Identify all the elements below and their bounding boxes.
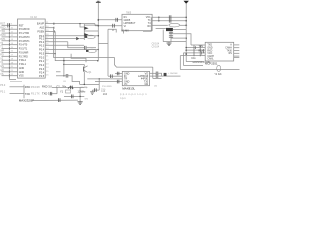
wire xt vertical a (56, 87, 58, 93)
U1 left pin GND wire and labels (0, 65, 24, 70)
node C junction 2 (63, 64, 65, 66)
capacitor column C21 (203, 49, 205, 53)
wire row 33.7 (173, 34, 191, 45)
wire VCC to vertical D (98, 42, 108, 44)
label net CANH (191, 57, 196, 60)
power VCC flag 2 (184, 1, 189, 62)
wire P0.3 (45, 44, 84, 46)
label mid dark 1 (42, 85, 52, 89)
IC U1 AT89C51 microcontroller body (18, 19, 46, 78)
svg-text:P3.4/T0: P3.4/T0 (19, 44, 28, 47)
svg-text:P0.3: P0.3 (39, 44, 45, 47)
wire cell2 out (84, 30, 98, 32)
node j3 (185, 24, 187, 26)
diode D4 mark (86, 50, 88, 52)
svg-text:INT1: INT1 (0, 38, 6, 41)
capacitor C12 (156, 74, 158, 78)
svg-text:P2.2: P2.2 (39, 64, 45, 67)
transistor Q2 arrow (84, 27, 88, 30)
label above U3 (126, 13, 132, 15)
wire vertical D (107, 29, 109, 76)
label right of F 2 (101, 89, 106, 91)
wire u5 row4 (183, 52, 205, 54)
wire PSEN to bus B (45, 31, 55, 33)
U5 left pin names (207, 45, 214, 61)
svg-text:PSEN: PSEN (37, 31, 44, 34)
wire jog to 81.5 (68, 76, 80, 85)
U1 right pin EA/VP labels (37, 22, 49, 26)
U4 left pin names (124, 72, 130, 86)
wire cell3 link (68, 42, 84, 48)
svg-text:Q1: Q1 (88, 71, 92, 74)
wire xt row1a (52, 86, 57, 88)
label gnd3 (85, 99, 89, 101)
svg-text:Y2 32k: Y2 32k (214, 74, 222, 76)
capacitor C24 (71, 95, 73, 99)
wire to transistor base (64, 63, 84, 65)
U3 right pin names (146, 16, 151, 28)
wire bus A vertical (54, 28, 115, 58)
node C junction 1 (63, 60, 65, 62)
wire cap row2 (64, 95, 84, 97)
wire L1 out (180, 24, 186, 26)
diode D1 (76, 37, 84, 40)
crystal Y1 plates (70, 86, 72, 90)
wire cathode column (83, 24, 85, 40)
U5 right pin names (225, 44, 232, 55)
svg-text:EA/VP: EA/VP (37, 23, 45, 26)
wire row 84.4 (80, 83, 100, 85)
svg-text:25: 25 (46, 71, 49, 73)
svg-text:P2.0: P2.0 (39, 56, 45, 59)
wire cap row (31, 99, 78, 101)
wire bus B vertical (55, 32, 98, 61)
label mid faint 1 (31, 86, 40, 89)
wire row 61.6 (186, 61, 204, 63)
svg-text:12MHz: 12MHz (78, 90, 87, 93)
wire vertical node C (63, 58, 65, 76)
svg-text:Y1: Y1 (60, 90, 64, 93)
svg-text:INT0: INT0 (0, 34, 6, 37)
U1 right pin P0.2 labels (39, 40, 49, 44)
svg-text:ALE: ALE (39, 27, 44, 30)
svg-text:P3.0 RX: P3.0 RX (31, 86, 40, 89)
label U3 designator (121, 30, 129, 33)
U5 right pin stubs (234, 45, 240, 56)
svg-text:C1 C2: C1 C2 (30, 17, 37, 19)
wire cell3 out (86, 47, 96, 49)
label hook (112, 30, 115, 32)
label right of F (102, 86, 112, 88)
svg-text:t4n: t4n (154, 85, 158, 88)
svg-text:MAX813L: MAX813L (122, 86, 135, 90)
label C6 (63, 81, 67, 83)
label conn row1 left (0, 84, 6, 87)
label Q1 (88, 71, 92, 74)
svg-text:WR: WR (0, 50, 4, 53)
capacitor C13 (116, 18, 118, 22)
IC U4 body (122, 71, 149, 85)
node bus B row junction (54, 53, 56, 55)
wire ALE to bus (45, 27, 53, 29)
wire U4 out2 (150, 75, 157, 77)
svg-text:P3.3/INT1: P3.3/INT1 (19, 40, 30, 43)
capacitor C5 (66, 74, 68, 78)
wire row 41.6 (163, 41, 186, 43)
note text row 2 (120, 97, 126, 100)
wire xt vertical b (79, 87, 81, 101)
label U5 designator (205, 62, 218, 66)
U1 right pin P0.5 labels (39, 52, 49, 56)
svg-text:P3.1/TXD: P3.1/TXD (19, 32, 30, 35)
wire U4 out1b (158, 73, 162, 76)
svg-text:RS: RS (229, 53, 233, 55)
svg-text:n p-n: n p-n (120, 97, 126, 100)
node j2 (158, 20, 160, 22)
node junction on EA wire (79, 23, 81, 25)
svg-text:P2.5: P2.5 (39, 75, 45, 78)
ground GND1 (90, 90, 94, 94)
wire row 65.4 (183, 64, 203, 66)
label xt top2 (62, 86, 67, 89)
svg-text:TXD: TXD (0, 30, 5, 33)
label Y1 freq (78, 90, 87, 93)
wire U4 out2b (158, 75, 164, 77)
svg-text:P3.1 TX: P3.1 TX (31, 93, 40, 96)
wire gnd row (92, 89, 99, 91)
ground GND3 (78, 102, 83, 105)
U1 right pin ALE labels (39, 26, 49, 30)
capacitor C9 (117, 80, 119, 84)
svg-text:C3 30p: C3 30p (81, 87, 89, 89)
wire vertical I (182, 53, 184, 66)
wire xtal row (57, 86, 84, 88)
svg-text:P3.1: P3.1 (0, 91, 6, 94)
wire vertical D hook (108, 29, 116, 32)
wire xt row2a (50, 93, 57, 95)
svg-text:RXD 3.0: RXD 3.0 (42, 85, 52, 89)
label Y1 (60, 90, 64, 93)
node end of bus B (97, 60, 99, 62)
label conn row2 right (25, 92, 30, 96)
LED DS1 body (87, 35, 96, 38)
svg-text:GD: GD (0, 69, 4, 72)
node Q1 emitter junction (84, 84, 86, 86)
note text row (120, 93, 147, 96)
node v2 a (185, 16, 187, 18)
wire row 38.1 (171, 37, 186, 39)
U1 right pin P2.4 labels lower (39, 71, 49, 75)
svg-text:RXD: RXD (25, 85, 31, 89)
crystal Y1 body (66, 90, 71, 93)
transistor Q4 body (164, 73, 167, 76)
label net CANL (193, 61, 210, 64)
svg-text:VI: VI (124, 25, 127, 28)
wire corner path K (71, 54, 86, 63)
svg-text:P3.6/WR: P3.6/WR (19, 51, 29, 54)
svg-text:22: 22 (46, 60, 49, 62)
node j1 (158, 16, 160, 18)
wire conn vertical (23, 85, 25, 99)
wire u5 row1 (191, 44, 205, 46)
wire U3 out4 (156, 28, 166, 30)
wire P0.4 to VCC rail (45, 49, 98, 51)
capacitor C17 (169, 32, 173, 34)
wire u5 row3 (186, 49, 205, 51)
svg-text:P3.2/INT0: P3.2/INT0 (19, 36, 30, 39)
svg-text:J1: J1 (112, 30, 115, 32)
U1 right pin P0.3 labels (39, 44, 49, 48)
wire D2 out (173, 29, 186, 31)
U1 left pin P3.3/INT1 wire and labels (0, 38, 30, 43)
svg-text:RST: RST (19, 24, 24, 27)
U1 left pin P3.7/RD wire and labels (0, 53, 28, 58)
wire P0.5 to bus (45, 53, 55, 55)
U4 right pin names (138, 72, 149, 86)
svg-text:GN: GN (85, 99, 89, 101)
svg-text:t 1N4148: t 1N4148 (169, 72, 179, 75)
svg-text:VS: VS (0, 73, 4, 76)
diode D2 body (166, 28, 173, 31)
label conn bottom (19, 99, 34, 103)
capacitor C14 (113, 24, 115, 28)
label U4 designator (122, 86, 135, 90)
node v2 c (185, 37, 187, 39)
wire vertical H (162, 30, 164, 42)
svg-text:P2.3: P2.3 (39, 68, 45, 71)
label F1 (214, 74, 222, 76)
label xt right (85, 87, 88, 89)
U1 left pin VSS wire and labels (0, 73, 24, 78)
U1 right pin P2.2 labels lower (39, 63, 49, 67)
svg-text:GN: GN (144, 83, 148, 86)
wire j1-j2 link (158, 17, 160, 21)
wire U5 stub extra (234, 56, 240, 58)
node VCC junction a (98, 19, 100, 21)
capacitor column C19 (194, 45, 196, 56)
U1 left pin P3.4/T0 wire and labels (0, 42, 28, 47)
power VCC flag 1 (96, 1, 101, 61)
inductor L1 body (169, 23, 180, 27)
wire EA/VP to VCC rail (45, 24, 95, 26)
wire row 75.8 (56, 75, 66, 77)
svg-text:C8 104: C8 104 (152, 44, 160, 46)
U1 right pin PSEN labels (37, 30, 49, 34)
capacitor C16 (169, 19, 171, 23)
wire bus F drop (152, 67, 154, 78)
wire P0.2 (45, 41, 68, 43)
capacitor C3 on RST line (8, 23, 10, 27)
svg-text:C9 104: C9 104 (152, 47, 160, 49)
wire U3 out2 (152, 20, 186, 22)
U3 left pin names (124, 16, 136, 28)
svg-text:RST: RST (0, 22, 5, 25)
transistor Q1 (84, 64, 88, 84)
wire vertical G (170, 31, 172, 41)
label net2 (198, 50, 203, 53)
wire vertical J (179, 56, 181, 70)
label Q4 (169, 72, 179, 75)
U1 right pin P0.1 labels (39, 37, 49, 41)
svg-text:C6: C6 (63, 81, 67, 83)
U1 left pin P3.5/T1 wire and labels (0, 46, 28, 51)
crystal Y1 arc (68, 87, 73, 89)
diode D3 mark (85, 36, 87, 38)
svg-text:RD: RD (0, 53, 4, 56)
svg-text:TXD: TXD (207, 45, 212, 47)
node VCC junction c (98, 19, 100, 21)
transistor Q3 arrow (84, 33, 88, 36)
node bus ticks (53, 23, 56, 33)
svg-text:P3.0: P3.0 (0, 84, 6, 87)
wire conn row2 (10, 93, 25, 95)
U1 left pin P3.1/TXD wire and labels (0, 30, 29, 35)
svg-text:P0.4: P0.4 (39, 49, 45, 52)
svg-text:CANH: CANH (207, 55, 214, 58)
label conn row1 right (25, 85, 31, 89)
node P0.4 junction (98, 49, 100, 51)
node VCC junction d (98, 25, 100, 27)
U1 left pin RST wire and labels (0, 22, 24, 27)
svg-text:P2.1: P2.1 (39, 60, 45, 63)
wire U3 out1 (152, 16, 186, 18)
U1 left pin P3.6/WR wire and labels (0, 50, 28, 55)
U1 right pin P2.0 labels lower (39, 56, 49, 60)
node r3 (185, 49, 187, 51)
wire P0.1 to diode (45, 38, 76, 40)
svg-text:21: 21 (46, 56, 49, 58)
label C values (152, 44, 160, 49)
U1 right pin P2.3 labels lower (39, 67, 49, 71)
capacitor C6 (95, 88, 97, 92)
svg-text:P3.7/RD: P3.7/RD (19, 55, 28, 58)
svg-text:R1N: R1N (198, 50, 203, 53)
svg-text:CANH: CANH (225, 47, 232, 50)
node r2 (185, 47, 187, 49)
LED DS2 body (88, 49, 97, 52)
capacitor C23 (58, 98, 60, 102)
capacitor C8 (111, 74, 113, 78)
U1 left pin XTAL1 wire and labels (0, 61, 26, 66)
wire GND jog below U1 left (10, 76, 17, 80)
svg-text:P3.0 RXD: P3.0 RXD (102, 86, 112, 88)
svg-text:GN: GN (0, 65, 4, 68)
svg-text:T1N: T1N (198, 45, 203, 48)
capacitor C11 (156, 72, 158, 76)
wire U3 in1 (98, 19, 122, 21)
label xt top3 (81, 87, 89, 89)
svg-text:T430: T430 (227, 50, 233, 52)
node xt (79, 96, 81, 98)
node C junction 3 (63, 75, 65, 77)
node v2 d (185, 53, 187, 55)
svg-text:VCC: VCC (207, 53, 212, 55)
U1 left pin GND wire and labels (0, 69, 24, 74)
wire stub (56, 71, 61, 73)
wire U4 pin2 (108, 75, 122, 77)
U1 left pin XTAL2 wire and labels (0, 57, 26, 62)
svg-text:104: 104 (103, 93, 108, 96)
svg-text:RXD: RXD (207, 50, 212, 52)
wire U4 pin3 (87, 78, 122, 80)
label net1 (198, 45, 203, 48)
wire u5 row2 (186, 47, 205, 49)
svg-text:24: 24 (46, 67, 49, 69)
wire conn row1 (10, 86, 25, 88)
label mid faint 2 (31, 93, 40, 96)
capacitor C15 (169, 15, 171, 19)
wire U4 out1 (150, 72, 157, 74)
U1 left pin P3.0/RXD wire and labels (0, 26, 29, 31)
label above U1 (30, 17, 37, 19)
svg-text:P3.5/T1: P3.5/T1 (19, 48, 28, 51)
svg-text:23: 23 (46, 63, 49, 65)
wire vertical F (98, 79, 100, 90)
wire Q4 out (167, 75, 181, 77)
svg-text:VSS: VSS (19, 75, 24, 78)
wire stub below U1 (10, 80, 22, 82)
svg-text:GND: GND (19, 71, 25, 74)
wire bus F row (153, 77, 162, 79)
svg-text:C11: C11 (191, 57, 196, 60)
IC U5 body (205, 42, 234, 61)
wire U3 right edge drop (143, 17, 151, 31)
label near F (101, 91, 108, 96)
wire u5 row5 (180, 55, 205, 57)
label small bottom (154, 85, 158, 88)
label xt top1 (56, 86, 60, 89)
IC U3 body (122, 14, 152, 30)
capacitor C4 (84, 46, 86, 50)
svg-text:GND: GND (207, 48, 212, 50)
label conn row2 left (0, 91, 6, 94)
wire drop from EA junction (80, 24, 84, 27)
capacitor C7 (117, 72, 119, 76)
svg-text:U3 MX: U3 MX (121, 30, 129, 33)
node F top (98, 78, 100, 80)
svg-text:RXD: RXD (0, 26, 5, 29)
capacitor C18 (169, 36, 173, 38)
capacitor C22 (50, 92, 52, 96)
capacitor column C20 (200, 45, 202, 56)
svg-text:P0.5: P0.5 (39, 53, 45, 56)
svg-text:GND: GND (19, 67, 25, 70)
svg-text:7805: 7805 (126, 13, 132, 15)
wire U3 in2 (95, 25, 122, 27)
wire U3 stub below (123, 31, 125, 34)
wire P0.0 to VCC rail (45, 35, 98, 37)
wire U3 out3 (152, 24, 168, 26)
U1 right pin P2.5 labels lower (39, 74, 49, 78)
svg-text:TXD: TXD (101, 89, 106, 91)
node v2 b (185, 20, 187, 22)
svg-text:p p-n n-p-n t-n-p n: p p-n n-p-n t-n-p n (120, 93, 147, 96)
ground GND2 (167, 42, 172, 46)
wire cell1 out (84, 24, 98, 26)
wire bus A drop (115, 58, 153, 68)
U1 right pin P0.4 labels (39, 48, 49, 52)
svg-text:26: 26 (46, 74, 49, 76)
node VCC junction b (98, 35, 100, 37)
fuse F1 body (217, 65, 221, 71)
svg-text:A: A (230, 44, 232, 47)
svg-text:TXD: TXD (25, 92, 30, 96)
svg-text:P3.0/RXD: P3.0/RXD (19, 28, 30, 31)
label mid dark 2 (42, 91, 52, 95)
U1 right pin P2.1 labels lower (39, 60, 49, 64)
svg-text:XTAL2: XTAL2 (19, 59, 27, 62)
U1 right pin P0.0 labels (39, 34, 49, 38)
